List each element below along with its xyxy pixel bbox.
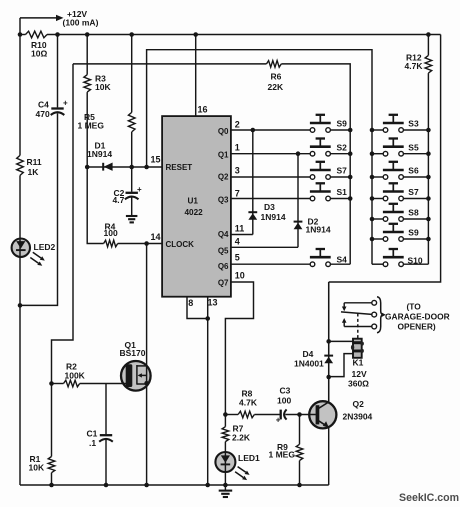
svg-text:S2: S2 [337, 142, 348, 152]
svg-text:R11: R11 [27, 157, 42, 167]
svg-text:Q2: Q2 [218, 173, 229, 182]
svg-text:Q0: Q0 [218, 127, 229, 136]
svg-text:1N4001: 1N4001 [294, 359, 324, 369]
svg-text:S9: S9 [337, 119, 348, 129]
svg-text:4.7K: 4.7K [405, 61, 424, 71]
svg-text:(100 mA): (100 mA) [63, 18, 99, 28]
svg-text:2.2K: 2.2K [232, 433, 251, 443]
svg-text:Q1: Q1 [218, 151, 229, 160]
svg-text:1N914: 1N914 [261, 212, 286, 222]
svg-text:+: + [276, 416, 281, 425]
svg-text:S9: S9 [408, 228, 419, 238]
svg-text:15: 15 [151, 155, 161, 165]
svg-text:14: 14 [151, 232, 161, 242]
svg-text:1 MEG: 1 MEG [78, 121, 105, 131]
svg-text:Q2: Q2 [353, 399, 365, 409]
svg-text:1 MEG: 1 MEG [269, 450, 296, 460]
svg-text:Q4: Q4 [218, 230, 229, 239]
svg-text:1K: 1K [28, 167, 40, 177]
svg-text:C3: C3 [280, 386, 291, 396]
svg-text:C4: C4 [38, 99, 49, 109]
svg-text:5: 5 [235, 253, 240, 263]
svg-text:S7: S7 [337, 166, 348, 176]
svg-text:2: 2 [235, 119, 240, 129]
svg-text:S5: S5 [408, 142, 419, 152]
svg-text:4: 4 [235, 237, 240, 247]
svg-text:S1: S1 [337, 187, 348, 197]
svg-text:1N914: 1N914 [87, 149, 112, 159]
svg-text:S4: S4 [337, 255, 348, 265]
svg-text:S3: S3 [408, 119, 419, 129]
svg-text:D4: D4 [303, 349, 314, 359]
svg-text:D3: D3 [264, 202, 275, 212]
svg-text:K1: K1 [353, 357, 364, 367]
svg-text:13: 13 [207, 298, 217, 308]
svg-text:10: 10 [235, 271, 245, 281]
svg-text:Q3: Q3 [218, 196, 229, 205]
svg-text:SeekIC.com: SeekIC.com [399, 492, 459, 504]
svg-text:U1: U1 [188, 197, 199, 206]
svg-text:Q7: Q7 [218, 278, 229, 287]
svg-text:+: + [63, 98, 68, 107]
svg-text:16: 16 [198, 105, 208, 115]
svg-text:C1: C1 [87, 429, 98, 439]
svg-text:100: 100 [277, 396, 291, 406]
svg-text:(TO: (TO [407, 301, 422, 311]
svg-text:R6: R6 [271, 72, 282, 82]
svg-text:GARAGE-DOOR: GARAGE-DOOR [385, 311, 450, 321]
svg-text:.1: .1 [89, 438, 96, 448]
svg-text:11: 11 [235, 224, 245, 234]
svg-text:CLOCK: CLOCK [166, 240, 195, 249]
svg-text:8: 8 [188, 298, 193, 308]
svg-text:S8: S8 [408, 208, 419, 218]
svg-text:BS170: BS170 [120, 348, 146, 358]
svg-text:22K: 22K [268, 82, 284, 92]
svg-text:3: 3 [235, 166, 240, 176]
svg-text:4022: 4022 [185, 208, 204, 217]
svg-text:+: + [137, 185, 142, 194]
svg-text:Q5: Q5 [218, 247, 229, 256]
svg-text:10K: 10K [95, 82, 111, 92]
svg-text:S10: S10 [408, 255, 423, 265]
svg-text:12V: 12V [352, 369, 367, 379]
svg-text:470: 470 [36, 109, 50, 119]
svg-text:4.7K: 4.7K [239, 398, 258, 408]
svg-text:RESET: RESET [166, 163, 193, 172]
svg-text:2N3904: 2N3904 [343, 412, 373, 422]
svg-text:10K: 10K [29, 463, 45, 473]
svg-text:1N914: 1N914 [306, 225, 331, 235]
svg-text:S6: S6 [408, 166, 419, 176]
svg-text:360Ω: 360Ω [348, 379, 369, 389]
svg-text:1: 1 [235, 143, 240, 153]
svg-text:10Ω: 10Ω [31, 49, 47, 59]
svg-text:7: 7 [235, 189, 240, 199]
svg-text:100K: 100K [65, 370, 86, 380]
svg-text:OPENER): OPENER) [398, 321, 436, 331]
svg-text:Q6: Q6 [218, 262, 229, 271]
svg-text:4.7: 4.7 [113, 195, 125, 205]
svg-text:LED1: LED1 [238, 453, 260, 463]
svg-text:100: 100 [104, 228, 118, 238]
svg-text:S7: S7 [408, 187, 419, 197]
svg-text:LED2: LED2 [34, 242, 56, 252]
